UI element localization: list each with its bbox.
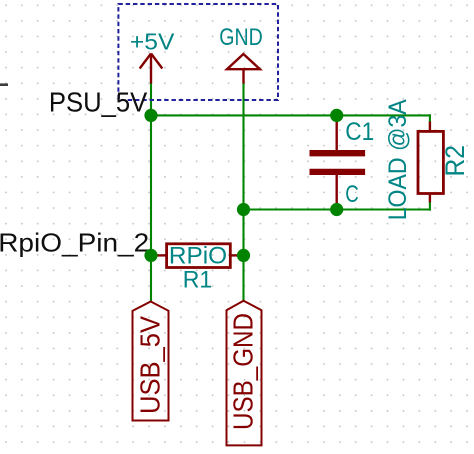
wire R2 top stub <box>429 114 431 122</box>
svg-text:PSU_5V: PSU_5V <box>49 86 148 117</box>
wire top horizontal +5V rail <box>151 114 430 116</box>
svg-text:C: C <box>345 181 359 208</box>
junction R1 right <box>237 249 250 262</box>
global label USB_GND shape <box>227 301 262 446</box>
junction GND rail left <box>237 203 250 216</box>
svg-text:RPiO: RPiO <box>169 243 227 270</box>
resistor R1 <box>167 244 231 268</box>
power symbol GND <box>227 54 260 84</box>
dashed selection box <box>118 4 278 100</box>
svg-text:USB_5V: USB_5V <box>135 316 166 414</box>
svg-text:R2: R2 <box>440 145 470 177</box>
svg-text:LOAD @3A: LOAD @3A <box>384 99 412 220</box>
junction R1 left <box>144 249 157 262</box>
resistor R2 <box>418 131 443 193</box>
svg-text:GND: GND <box>219 24 262 51</box>
wire GND vertical rail <box>242 83 244 301</box>
wire R2 bottom stub <box>429 202 431 211</box>
junction PSU_5V node <box>144 109 157 122</box>
sheet border tick <box>0 83 8 86</box>
resistor R2 pins <box>429 122 431 203</box>
junction C1 bottom <box>330 203 343 216</box>
svg-text:RpiO_Pin_2: RpiO_Pin_2 <box>0 227 149 257</box>
power symbol +5V <box>140 54 163 84</box>
global label USB_5V shape <box>133 302 169 421</box>
wire +5V vertical rail <box>150 83 152 302</box>
svg-text:C1: C1 <box>345 118 374 146</box>
svg-text:USB_GND: USB_GND <box>228 313 259 430</box>
wire bottom horizontal GND rail <box>244 208 430 210</box>
resistor R1 pins <box>151 254 244 256</box>
svg-text:R1: R1 <box>183 267 213 294</box>
capacitor C1 <box>336 116 338 210</box>
svg-text:+5V: +5V <box>130 28 175 54</box>
junction C1 top <box>330 109 343 122</box>
